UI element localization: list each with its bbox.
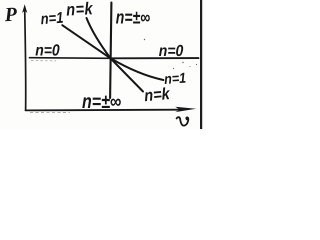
axis label v (script) <box>177 117 189 125</box>
faint shadow dashes under v axis <box>30 111 70 113</box>
isotherm curve n=1 <box>62 25 163 80</box>
isochore n=+-infinity (vertical line through centre) <box>110 3 111 98</box>
svg-text:n=±∞: n=±∞ <box>116 6 150 28</box>
svg-text:n=1: n=1 <box>40 8 64 28</box>
svg-text:n=k: n=k <box>144 85 172 106</box>
svg-text:n=±∞: n=±∞ <box>82 92 121 113</box>
svg-text:n=0: n=0 <box>159 41 184 59</box>
v axis arrowhead <box>175 107 196 112</box>
scan speckles <box>111 39 197 105</box>
isobar n=0 left segment <box>30 57 111 60</box>
isobar n=0 right segment <box>111 57 199 59</box>
svg-text:P: P <box>3 4 18 27</box>
svg-text:n=k: n=k <box>66 0 94 20</box>
P axis (vertical) <box>25 9 26 110</box>
v axis (horizontal) <box>26 109 181 112</box>
right border rule <box>200 0 202 129</box>
faint shadow dashes under left isobar <box>31 60 56 62</box>
P axis arrowhead <box>22 4 27 13</box>
adiabat curve n=k <box>87 18 144 92</box>
svg-text:n=0: n=0 <box>35 41 60 59</box>
